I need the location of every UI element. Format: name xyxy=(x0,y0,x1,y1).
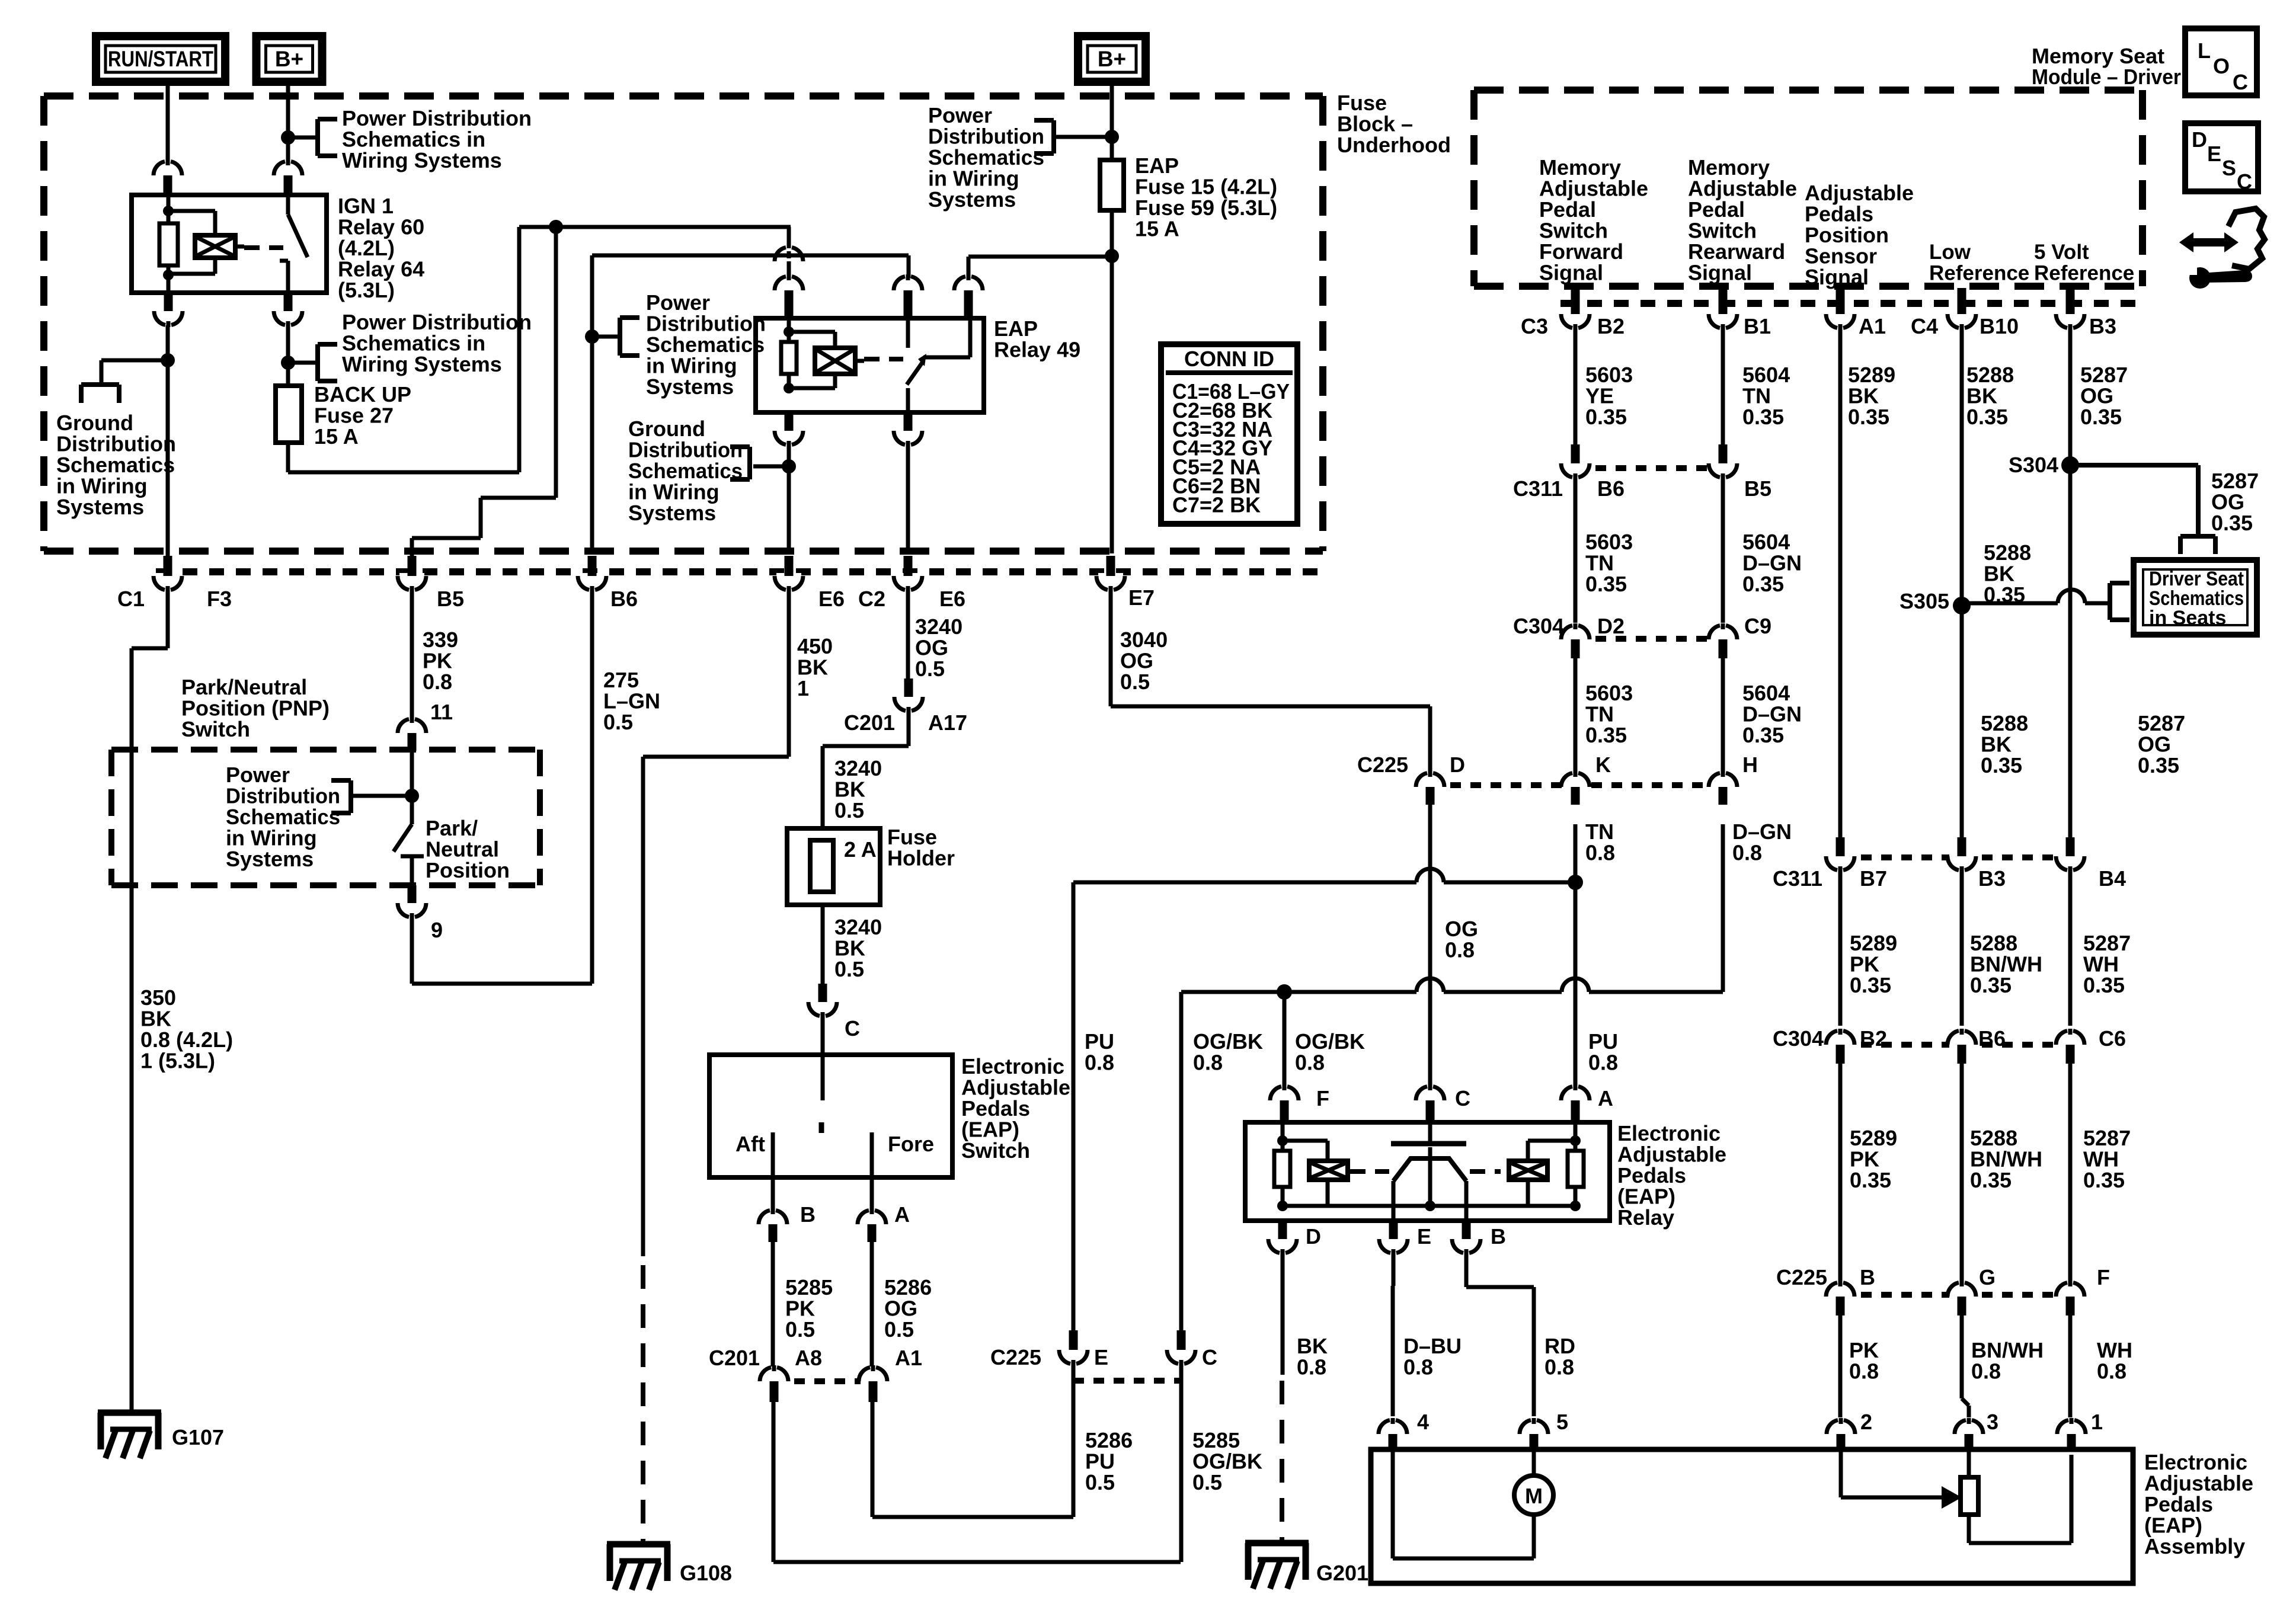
wire hop OG/BK over TN xyxy=(1562,978,1589,992)
svg-text:0.35: 0.35 xyxy=(1850,973,1891,997)
connector row C201 dashed xyxy=(774,1378,873,1384)
connector pin 1 xyxy=(2057,1418,2086,1451)
wire pin2 arrow xyxy=(1841,1449,1962,1509)
svg-text:0.35: 0.35 xyxy=(1585,405,1627,429)
connector pin 5 xyxy=(1520,1418,1548,1451)
label D (relay) xyxy=(1306,1224,1321,1249)
wire B5 to PNP xyxy=(410,592,414,718)
wire label 5287 WH mid xyxy=(2083,931,2131,997)
svg-text:0.8: 0.8 xyxy=(1085,1051,1114,1075)
connector module B2 xyxy=(1561,288,1590,330)
connector pair below relay switch xyxy=(274,293,302,327)
label A (relay) xyxy=(1598,1086,1613,1110)
connector 11 xyxy=(398,717,426,751)
svg-text:0.5: 0.5 xyxy=(884,1317,914,1342)
connector pin 2 xyxy=(1827,1418,1855,1451)
svg-text:B7: B7 xyxy=(1860,866,1887,891)
junction dot B+ note xyxy=(1105,130,1119,144)
svg-text:K: K xyxy=(1595,753,1611,777)
label E7 xyxy=(1128,585,1155,610)
EAP switch common hint dash xyxy=(819,1122,824,1133)
svg-text:0.35: 0.35 xyxy=(2211,511,2253,535)
svg-text:A1: A1 xyxy=(895,1346,922,1370)
svg-text:B5: B5 xyxy=(1744,476,1771,501)
wire left coil return xyxy=(1326,1180,1330,1206)
wire PNP out to B6 net xyxy=(412,917,592,984)
junction dot relay49 coil bottom xyxy=(784,383,794,393)
wire E drop xyxy=(1072,882,1076,1330)
label K (C225) xyxy=(1595,753,1611,777)
wire 3240 OG xyxy=(906,592,910,678)
CONN ID table box xyxy=(1161,344,1297,524)
svg-text:0.35: 0.35 xyxy=(2083,973,2125,997)
connector C311 B4 xyxy=(2056,837,2084,872)
svg-text:C225: C225 xyxy=(990,1345,1041,1369)
svg-text:0.5: 0.5 xyxy=(785,1317,815,1342)
ground G107 xyxy=(98,1413,161,1458)
wire S304 branch xyxy=(2070,465,2198,534)
svg-text:Signal: Signal xyxy=(1805,265,1869,289)
wire label PK 0.8 xyxy=(1849,1338,1879,1384)
wire PU to relay A xyxy=(1574,882,1578,1089)
svg-text:0.8: 0.8 xyxy=(1971,1359,2001,1384)
svg-text:C3: C3 xyxy=(1521,314,1548,338)
svg-text:O: O xyxy=(2213,54,2230,78)
svg-text:Holder: Holder xyxy=(887,846,955,870)
svg-text:M: M xyxy=(1525,1484,1543,1508)
connector relay D pin xyxy=(1268,1221,1297,1255)
wire label 5288 BK xyxy=(1966,363,2014,429)
wire coil loop return xyxy=(168,258,215,274)
svg-text:B: B xyxy=(1860,1265,1875,1289)
label B7 xyxy=(1860,866,1887,891)
label B (relay) xyxy=(1491,1224,1506,1249)
connector module B3 xyxy=(2056,288,2084,330)
svg-text:C7=2 BK: C7=2 BK xyxy=(1172,492,1261,517)
switch rocker common xyxy=(1391,1122,1466,1206)
svg-text:Position: Position xyxy=(426,858,510,882)
wire coil loop xyxy=(168,211,215,235)
wire label 339 PK xyxy=(423,628,458,694)
wire relay common rail xyxy=(1283,1204,1575,1208)
wire C into switch xyxy=(821,1015,825,1100)
wire label 450 BK xyxy=(797,634,833,700)
svg-text:G201: G201 xyxy=(1316,1561,1368,1585)
switch PNP fixed contact xyxy=(401,856,424,885)
ground distribution note (relay49) xyxy=(628,417,743,525)
wire 5287 WH low xyxy=(2068,1064,2073,1282)
fuse BACK UP label xyxy=(314,382,411,449)
connector row C1 dashed line xyxy=(156,568,1323,575)
svg-text:0.8: 0.8 xyxy=(1588,1051,1618,1075)
label B6 (C304) xyxy=(1978,1026,2006,1051)
svg-text:3: 3 xyxy=(1987,1410,1998,1434)
connector relay49 output pin xyxy=(954,274,983,318)
svg-text:0.8: 0.8 xyxy=(1403,1355,1433,1379)
svg-text:0.35: 0.35 xyxy=(1850,1168,1891,1192)
svg-text:C2: C2 xyxy=(858,587,885,611)
connector E7 xyxy=(1096,556,1125,592)
connector relay F pin xyxy=(1270,1084,1299,1122)
svg-text:A1: A1 xyxy=(1859,314,1886,338)
wire label 5288 BK mid xyxy=(1984,540,2031,607)
solenoid box relay right xyxy=(1509,1161,1547,1180)
power distribution note (PNP) xyxy=(226,763,340,871)
svg-text:Aft: Aft xyxy=(736,1132,765,1156)
connector A8 xyxy=(760,1365,788,1402)
svg-text:0.8: 0.8 xyxy=(1297,1355,1326,1379)
wire label 5289 BK xyxy=(1848,363,1895,429)
svg-text:B6: B6 xyxy=(1597,476,1625,501)
relay49 label xyxy=(994,316,1080,362)
svg-text:0.5: 0.5 xyxy=(834,798,864,822)
connector row C311L dashed xyxy=(1575,465,1723,471)
wire coil bottom lead xyxy=(167,275,171,293)
wire into relay49 coil xyxy=(787,261,791,279)
wire label TN 0.8 xyxy=(1585,820,1615,865)
label F3 xyxy=(207,587,232,611)
wire 5288 BN/WH low xyxy=(1960,1064,1964,1282)
power distribution note (B6 feed) xyxy=(646,290,766,399)
connector 9 xyxy=(398,885,426,919)
svg-text:F3: F3 xyxy=(207,587,232,611)
wire label 5286 PU xyxy=(1085,1428,1133,1494)
junction dot coil top xyxy=(163,206,174,216)
svg-text:4: 4 xyxy=(1417,1410,1429,1434)
svg-text:0.35: 0.35 xyxy=(1970,973,2012,997)
svg-text:Relay 49: Relay 49 xyxy=(994,338,1080,362)
wire label PU 0.8 (A) xyxy=(1588,1029,1618,1075)
wire EAP fuse out xyxy=(1110,210,1114,553)
EAP assembly label xyxy=(2144,1450,2253,1558)
dashed link left xyxy=(1350,1169,1389,1174)
label C225 (D) xyxy=(1357,753,1408,777)
wire label 3040 OG xyxy=(1120,628,1168,694)
solenoid box relay left xyxy=(1309,1161,1348,1180)
connector C225 D xyxy=(1416,771,1444,805)
svg-text:C1: C1 xyxy=(117,587,145,611)
wire 5286 OG xyxy=(870,1242,874,1366)
wire D-GN drop to bus xyxy=(1721,824,1725,992)
wire Fore contact xyxy=(870,1132,874,1210)
label C (C225) xyxy=(1202,1345,1217,1369)
label B2 (C304) xyxy=(1860,1026,1887,1051)
wire 339 feed bus xyxy=(519,225,791,229)
connector row C304R dashed xyxy=(1841,1042,2072,1048)
wire RD to pin5 xyxy=(1466,1253,1534,1416)
svg-text:C6: C6 xyxy=(2099,1026,2126,1051)
junction dot A bottom xyxy=(1570,1201,1581,1211)
wire 5288 BN/WH mid xyxy=(1960,870,1964,1026)
wire PU bus xyxy=(1073,881,1575,885)
connector module A1 xyxy=(1826,288,1854,330)
label S305 xyxy=(1900,589,1949,613)
wire pin3 to pot xyxy=(1967,1451,1971,1477)
svg-text:0.5: 0.5 xyxy=(1192,1470,1222,1494)
svg-text:C304: C304 xyxy=(1773,1026,1824,1051)
svg-text:C225: C225 xyxy=(1776,1265,1827,1289)
wire pot to pin1 xyxy=(1969,1455,2071,1543)
memory seat module dashed border xyxy=(1474,90,2142,286)
svg-text:0.8: 0.8 xyxy=(423,670,452,694)
wire left coil loop xyxy=(1283,1141,1328,1161)
svg-text:Signal: Signal xyxy=(1688,261,1752,285)
label C1 xyxy=(117,587,145,611)
svg-text:0.8: 0.8 xyxy=(1193,1051,1223,1075)
label 2 A xyxy=(844,837,877,862)
svg-text:15 A: 15 A xyxy=(314,424,359,449)
wire label 3240 OG xyxy=(915,614,962,681)
svg-text:5 Volt: 5 Volt xyxy=(2034,241,2089,264)
svg-text:S304: S304 xyxy=(2009,453,2058,477)
wire label 350 BK xyxy=(140,985,233,1073)
wire label OG/BK (left) xyxy=(1193,1029,1263,1075)
label D (C225) xyxy=(1450,753,1465,777)
wire label WH 0.8 xyxy=(2097,1338,2132,1384)
connector C225 F xyxy=(2056,1281,2084,1315)
svg-text:D: D xyxy=(2192,127,2207,152)
svg-text:C4: C4 xyxy=(1911,314,1938,338)
label A17 xyxy=(928,710,967,735)
connector C225 C xyxy=(1167,1330,1195,1366)
wire BN/WH 0.8 xyxy=(1962,1315,1969,1417)
wire label 5285 OG/BK xyxy=(1192,1428,1262,1494)
svg-text:E: E xyxy=(2207,142,2221,166)
junction dot B6 feed xyxy=(585,329,599,344)
junction dot F top xyxy=(1277,1135,1288,1146)
label E (C225) xyxy=(1094,1345,1108,1369)
svg-text:9: 9 xyxy=(431,918,443,942)
svg-text:Underhood: Underhood xyxy=(1337,133,1451,157)
label 11 xyxy=(430,700,453,724)
connector row C225EC dashed xyxy=(1073,1378,1181,1384)
power distribution note (B+ left) xyxy=(342,106,532,172)
svg-text:A: A xyxy=(894,1202,910,1227)
ground distribution note (left) xyxy=(56,411,176,519)
wire B5 staircase xyxy=(412,227,556,556)
svg-text:CONN ID: CONN ID xyxy=(1184,347,1274,371)
svg-text:0.35: 0.35 xyxy=(1585,723,1627,747)
wire 450 BK dashed to G108 xyxy=(641,1265,645,1544)
label pin 5 xyxy=(1556,1410,1568,1434)
connector B5 xyxy=(398,556,426,592)
connector fuse block cavity (coil) xyxy=(775,248,803,262)
connector C225 E xyxy=(1059,1330,1088,1366)
wire relay49 output feed xyxy=(968,257,1112,279)
connector module B10 xyxy=(1948,288,1976,330)
half bracket to seats xyxy=(2180,536,2215,554)
module connector row dashed xyxy=(1560,300,2142,307)
wire B contact drop xyxy=(1464,1181,1469,1221)
potentiometer EAP sensor xyxy=(1961,1477,1978,1515)
label C6 (C304) xyxy=(2099,1026,2126,1051)
wire relay49 coil loop xyxy=(789,332,835,348)
svg-text:Systems: Systems xyxy=(646,375,734,399)
fuse block underhood dashed border xyxy=(44,96,1323,551)
connector pair on RUN/START feed xyxy=(154,159,182,195)
label B3 (module) xyxy=(2089,314,2116,338)
DESC box xyxy=(2185,123,2258,194)
wire label 5287 OG low xyxy=(2138,711,2185,777)
junction dot rocker xyxy=(1425,1201,1435,1211)
svg-text:RUN/START: RUN/START xyxy=(108,47,213,71)
junction dot coil bottom xyxy=(163,270,174,280)
label Fore xyxy=(888,1132,934,1156)
switch relay49 xyxy=(907,318,970,412)
label A1 (module) xyxy=(1859,314,1886,338)
junction dot OG/BK branch xyxy=(1277,984,1292,1000)
connector A1 xyxy=(859,1365,887,1402)
svg-text:1: 1 xyxy=(2091,1410,2103,1434)
label G201 xyxy=(1316,1561,1368,1585)
label C (EAP switch) xyxy=(845,1016,860,1041)
wire label PU 0.8 xyxy=(1085,1029,1114,1075)
wire relay49 out to C2 xyxy=(906,445,910,553)
wire B+ middle drop xyxy=(1110,82,1114,160)
svg-text:C: C xyxy=(2233,70,2248,94)
connector pin 4 xyxy=(1379,1418,1407,1451)
label 9 xyxy=(431,918,443,942)
wire relay49 loop return xyxy=(789,374,835,388)
svg-text:C311: C311 xyxy=(1773,866,1822,891)
wire label 3240 BK (lower) xyxy=(834,915,882,981)
svg-text:C201: C201 xyxy=(844,710,895,735)
wire label D-BU 0.8 xyxy=(1403,1334,1462,1379)
svg-text:G107: G107 xyxy=(172,1425,224,1449)
connector row C225R dashed xyxy=(1841,1292,2072,1298)
label G (C225R) xyxy=(1979,1265,1996,1289)
fuse holder label xyxy=(887,825,955,870)
label F (relay) xyxy=(1316,1086,1329,1110)
wire 5603 TN low xyxy=(1574,658,1578,774)
bracket PNP feed xyxy=(331,780,412,813)
wire right coil return xyxy=(1526,1180,1530,1206)
wire B6 riser xyxy=(590,255,594,553)
label B2 (module) xyxy=(1597,314,1625,338)
dashed link right xyxy=(1470,1169,1501,1174)
svg-text:0.8: 0.8 xyxy=(1585,841,1615,865)
svg-text:Wiring Systems: Wiring Systems xyxy=(342,148,502,172)
label C201 (A17) xyxy=(844,710,895,735)
svg-text:Systems: Systems xyxy=(56,495,144,519)
label H (C225) xyxy=(1742,753,1758,777)
junction dot A top xyxy=(1570,1135,1581,1146)
svg-text:2 A: 2 A xyxy=(844,837,877,862)
solenoid box relay49 xyxy=(815,348,864,374)
wire 5288 BK xyxy=(1960,329,1964,837)
wire OG drop xyxy=(1428,805,1432,1089)
svg-text:0.5: 0.5 xyxy=(1085,1470,1115,1494)
label B1 (module) xyxy=(1744,314,1771,338)
svg-text:1 (5.3L): 1 (5.3L) xyxy=(140,1049,215,1073)
relay IGN1 label xyxy=(338,194,424,302)
fuse holder box xyxy=(787,828,880,905)
CONN ID rows xyxy=(1172,379,1290,517)
wire label OG 0.8 xyxy=(1445,917,1478,962)
wire label OG/BK (right) xyxy=(1295,1029,1365,1075)
svg-text:C225: C225 xyxy=(1357,753,1408,777)
label D2 (C304) xyxy=(1597,614,1625,638)
label C225 (E) xyxy=(990,1345,1041,1369)
wire 450 BK xyxy=(643,592,789,1256)
wire label 5288 BN/WH low xyxy=(1970,1126,2042,1192)
svg-text:0.35: 0.35 xyxy=(1742,723,1784,747)
resistor relay right xyxy=(1568,1122,1584,1206)
connector E6/C2 xyxy=(894,556,922,592)
PNP switch label xyxy=(181,675,330,741)
connector row C311R dashed xyxy=(1841,854,2072,860)
connector B (EAP switch) xyxy=(759,1208,787,1242)
label B5 xyxy=(437,587,464,611)
wire label 5287 WH low xyxy=(2083,1126,2131,1192)
label G108 xyxy=(680,1561,732,1585)
label S304 xyxy=(2009,453,2058,477)
svg-text:Low: Low xyxy=(1929,241,1971,264)
PNP switch dashed box xyxy=(111,750,540,885)
connector C225 G xyxy=(1948,1281,1976,1315)
svg-text:D2: D2 xyxy=(1597,614,1625,638)
svg-text:0.8: 0.8 xyxy=(1849,1359,1879,1384)
terminal B+ (middle) xyxy=(1078,36,1146,82)
svg-text:S305: S305 xyxy=(1900,589,1949,613)
label pin 1 xyxy=(2091,1410,2103,1434)
wire label 5288 BN/WH mid xyxy=(1970,931,2042,997)
junction dot S304 xyxy=(2061,456,2079,474)
wire label 5288 BK low xyxy=(1981,711,2028,777)
module pin note forward xyxy=(1539,155,1648,285)
resistor relay49 coil xyxy=(781,318,797,388)
wire B+ to connector xyxy=(286,82,290,161)
junction dot coil ground branch xyxy=(161,353,175,367)
wire label 5289 PK mid xyxy=(1850,931,1897,997)
label B5 (C311) xyxy=(1744,476,1771,501)
svg-text:0.35: 0.35 xyxy=(1966,405,2008,429)
ground ref pointer xyxy=(81,385,119,403)
EAP switch box xyxy=(709,1055,952,1177)
label C3 xyxy=(1521,314,1548,338)
resistor relay left xyxy=(1274,1122,1290,1206)
wire label 5285 PK xyxy=(785,1275,833,1342)
connector relay C pin xyxy=(1416,1084,1444,1122)
junction dot F bottom xyxy=(1277,1201,1288,1211)
terminal RUN/START xyxy=(96,36,225,82)
wire Aft contact xyxy=(771,1132,775,1210)
svg-text:Reference: Reference xyxy=(2034,262,2134,285)
svg-text:D: D xyxy=(1306,1224,1321,1249)
label B (C225R) xyxy=(1860,1265,1875,1289)
svg-text:B3: B3 xyxy=(1978,866,2006,891)
label C304 (left) xyxy=(1513,614,1564,638)
label B10 (module) xyxy=(1980,314,2019,338)
svg-text:C311: C311 xyxy=(1513,476,1563,501)
svg-text:0.35: 0.35 xyxy=(1848,405,1889,429)
svg-text:0.8: 0.8 xyxy=(1445,938,1475,962)
svg-text:B5: B5 xyxy=(437,587,464,611)
connector F3 xyxy=(154,556,182,592)
svg-text:G108: G108 xyxy=(680,1561,732,1585)
label C9 (C304) xyxy=(1744,614,1771,638)
fuse block label xyxy=(1337,91,1451,157)
svg-text:B6: B6 xyxy=(610,587,638,611)
junction dot relay49 coil top xyxy=(784,327,794,337)
connector E6 (450 BK) xyxy=(775,556,803,592)
EAP assembly box xyxy=(1371,1449,2133,1583)
relay IGN1 box xyxy=(132,195,327,293)
label Park/Neutral Position xyxy=(426,816,510,882)
svg-text:B: B xyxy=(800,1202,816,1227)
module pin note position sensor xyxy=(1805,181,1914,289)
wire 5289 PK mid xyxy=(1838,870,1843,1026)
